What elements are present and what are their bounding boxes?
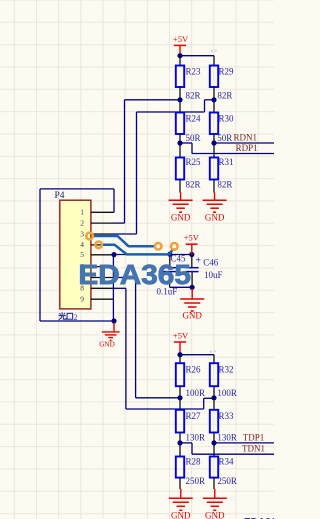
resistor R34 (210, 457, 234, 478)
node orange marker RX- end (171, 243, 178, 250)
node RDN junction (211, 140, 216, 145)
label TDP1 (243, 432, 265, 442)
node RDP junction (177, 140, 182, 145)
svg-text:EDA365: EDA365 (244, 515, 274, 519)
wire net RDP1 (180, 143, 274, 154)
wire pin1 stub to riser (113, 211, 114, 213)
svg-text:P4: P4 (55, 191, 65, 201)
value 50R (R24) (186, 133, 201, 143)
svg-text:4: 4 (80, 240, 84, 249)
svg-text:GND: GND (205, 510, 225, 519)
value 50R (R30) (217, 133, 232, 143)
power +5V (bottom) (173, 330, 189, 354)
wire R31 bottom lead (213, 180, 215, 193)
node TD left junction (177, 395, 182, 400)
wire pin7 net to left junction (113, 278, 180, 398)
connector P4 body (60, 200, 91, 309)
value 250R (R28) (186, 476, 206, 486)
wire R23 bottom to R24 top (179, 87, 181, 113)
svg-text:3: 3 (80, 229, 84, 238)
watermark bottom-right (clipped) (244, 515, 282, 519)
svg-text:100R: 100R (186, 388, 206, 398)
svg-text:EDA365: EDA365 (78, 259, 190, 290)
svg-text:R29: R29 (219, 67, 235, 77)
svg-text:GND: GND (171, 212, 191, 222)
pin 3 (80, 229, 113, 238)
ground GND (R34) (203, 489, 227, 519)
pin 6 (80, 262, 113, 271)
svg-text:GND: GND (182, 310, 202, 320)
node orange marker pin4 (95, 242, 102, 249)
svg-text:100R: 100R (217, 388, 237, 398)
svg-text:R26: R26 (186, 365, 202, 375)
svg-text:R24: R24 (186, 114, 202, 124)
svg-text:C46: C46 (203, 257, 219, 267)
node orange marker RX+ end (155, 243, 162, 250)
node pin5 junction (111, 252, 116, 257)
resistor R32 (210, 363, 234, 386)
value 250R (R34) (217, 476, 237, 486)
node C46 top junction (189, 252, 194, 257)
svg-text:RDP1: RDP1 (236, 143, 258, 153)
svg-text:50R: 50R (186, 133, 201, 143)
svg-text:GND: GND (171, 510, 191, 519)
wire R29 bottom to R30 top (213, 87, 215, 113)
resistor R23 (176, 66, 201, 88)
value 82R (R31) (217, 179, 232, 189)
node +5V bottom junction (177, 352, 182, 357)
svg-text:9: 9 (80, 295, 84, 304)
svg-text:R27: R27 (186, 411, 202, 421)
resistor R31 (210, 157, 234, 180)
resistor R27 (176, 410, 201, 433)
node C45/C46 ground junction (190, 285, 195, 290)
svg-text:+5V: +5V (173, 330, 189, 340)
node orange marker pin3 (86, 233, 93, 240)
wire net RDN1 (214, 142, 274, 144)
ground GND (R28) (169, 489, 193, 519)
node RD left junction (177, 97, 182, 102)
pin 8 (80, 284, 113, 293)
svg-text:50R: 50R (217, 133, 232, 143)
wire R24 bottom to R25 top (179, 134, 181, 158)
svg-text:250R: 250R (186, 476, 206, 486)
value 82R (R29) (217, 91, 232, 101)
value 10uF (C46) (204, 270, 223, 280)
svg-text:R23: R23 (186, 67, 202, 77)
node ground bus junction (111, 318, 116, 323)
wire net TDN1 (180, 443, 274, 454)
node TDP junction (211, 440, 216, 445)
svg-text:R32: R32 (219, 365, 234, 375)
resistor R29 (210, 66, 234, 88)
wire pin8 net dog-leg to right junction (113, 288, 214, 409)
node +5V top junction (177, 53, 182, 58)
value 130R (R27) (186, 432, 206, 442)
svg-text:+: + (195, 255, 201, 266)
value 0.1uF (C45) (157, 287, 178, 297)
svg-text:TDP1: TDP1 (243, 432, 265, 442)
svg-text:R33: R33 (219, 411, 235, 421)
value 100R (R26) (186, 388, 206, 398)
svg-text:1: 1 (80, 208, 84, 217)
capacitor C46 (polarized) (186, 255, 219, 288)
node RD right junction (211, 97, 216, 102)
svg-text:130R: 130R (186, 432, 206, 442)
label RDN1 (233, 133, 257, 143)
ground GND (connector) (99, 323, 119, 349)
resistor R28 (176, 457, 201, 478)
svg-text:+5V: +5V (173, 34, 189, 44)
node C45 top junction (167, 252, 172, 257)
pin 9 (80, 295, 113, 304)
svg-text:82R: 82R (217, 91, 232, 101)
svg-text:82R: 82R (186, 179, 201, 189)
power +5V (mid) (184, 233, 200, 255)
ground GND (R31) (203, 193, 227, 223)
resistor R33 (210, 410, 234, 433)
pin 7 (80, 273, 113, 282)
resistor R26 (176, 363, 201, 386)
value 130R (R33) (217, 432, 237, 442)
svg-text:R30: R30 (219, 114, 235, 124)
ground GND (R25) (169, 193, 193, 223)
svg-text:GND: GND (99, 341, 115, 349)
svg-text:250R: 250R (217, 476, 237, 486)
wire R28 bottom lead (179, 478, 181, 489)
wire +5V junction to R26 top (179, 355, 181, 364)
svg-text:R28: R28 (186, 457, 202, 467)
pin 5 (80, 250, 113, 259)
svg-text:82R: 82R (217, 179, 232, 189)
svg-text:R25: R25 (186, 157, 202, 167)
wire +5V junction to R32 top (180, 355, 214, 364)
capacitor C45 (163, 253, 186, 287)
ground GND (C45/C46) (180, 289, 204, 321)
value 82R (R25) (186, 179, 201, 189)
svg-text:82R: 82R (186, 91, 201, 101)
wire R26 bottom to R27 top (179, 386, 181, 410)
label RDP1 (236, 143, 258, 153)
wire pin1 loop to ground bus (left big loop) (40, 189, 114, 321)
wire R33 bottom to R34 top (213, 433, 215, 457)
wire blue pair RX+ (pin3) (92, 236, 155, 246)
wire R34 bottom lead (213, 478, 215, 489)
node TDN junction (177, 440, 182, 445)
resistor R30 (210, 113, 234, 135)
wire pin5/pin9 ground riser (112, 255, 114, 322)
label TDN1 (242, 444, 265, 454)
value 82R (R23) (186, 91, 201, 101)
wire pin5 to +5V/C45/C46 rail (113, 254, 192, 256)
svg-text:10uF: 10uF (204, 270, 223, 280)
wire R32 bottom to R33 top (213, 386, 215, 410)
svg-text:2: 2 (74, 313, 78, 322)
svg-text:GND: GND (205, 212, 225, 222)
wire R27 bottom to R28 top (179, 433, 181, 457)
pin 2 (80, 218, 113, 227)
svg-text:RDN1: RDN1 (233, 133, 257, 143)
wire pin2 net: junction to connector pin 2 (113, 100, 180, 223)
svg-text:R31: R31 (219, 157, 234, 167)
wire C45 bottom to GND node (170, 286, 193, 288)
power +5V (top) (173, 34, 189, 56)
resistor R24 (176, 113, 201, 135)
pin 4 (80, 240, 113, 249)
pin 1 (80, 208, 113, 217)
wire pin3 net: right junction dog-leg to connector pin 3 (113, 100, 214, 234)
node TD right junction (211, 395, 216, 400)
svg-text:R34: R34 (219, 457, 235, 467)
wire R25 bottom lead (179, 180, 181, 193)
wire net TDP1 (214, 442, 274, 444)
svg-text:+5V: +5V (184, 233, 200, 243)
label 光口2 (port name) (59, 312, 78, 322)
wire blue pair RX- (pin4) (102, 245, 172, 255)
value 100R (R32) (217, 388, 237, 398)
wire +5V junction to R23 top (179, 56, 181, 66)
svg-text:TDN1: TDN1 (242, 444, 265, 454)
wire +5V junction to R29 top (180, 56, 214, 66)
svg-text:130R: 130R (217, 432, 237, 442)
wire R30 bottom to R31 top (213, 134, 215, 158)
resistor R25 (176, 157, 201, 180)
watermark EDA365 (78, 259, 190, 290)
wire pin9 to ground riser (112, 298, 114, 300)
designator P4 (55, 191, 65, 201)
svg-text:2: 2 (80, 218, 84, 227)
